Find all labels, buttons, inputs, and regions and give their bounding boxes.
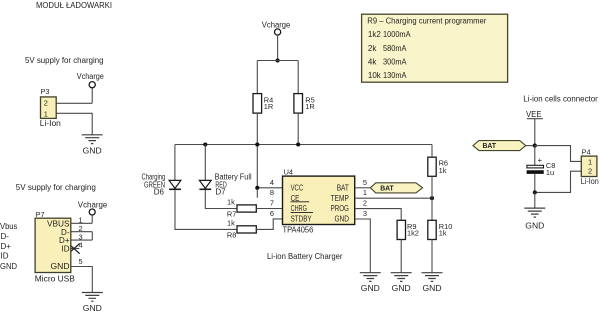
Vcharge open terminal (P3) — [89, 82, 95, 88]
junction VEE/BAT/C8/P4 — [533, 144, 537, 148]
diode D6 — [169, 180, 181, 189]
pin number 3 (P7) — [79, 232, 83, 241]
junction rail/R5 — [296, 142, 300, 146]
power symbol VEE — [526, 110, 543, 119]
svg-text:580mA: 580mA — [383, 44, 407, 53]
LED D7 labels — [215, 172, 252, 196]
caption Li-ion cells connector — [523, 94, 598, 103]
resistor R7 — [227, 198, 256, 219]
wire junction to C8 top — [534, 146, 536, 166]
svg-text:4: 4 — [79, 241, 83, 250]
wire R5 bottom to rail — [297, 113, 299, 144]
svg-text:TEMP: TEMP — [331, 194, 349, 203]
wire junction to P4 pin1 — [535, 146, 582, 162]
connector P7 Micro USB — [35, 210, 75, 283]
svg-text:5: 5 — [79, 257, 83, 266]
svg-text:Vcharge: Vcharge — [262, 20, 291, 29]
wire D7 cathode to R7 — [205, 190, 237, 208]
svg-text:4k: 4k — [368, 58, 377, 67]
pin number 1 (P7) — [79, 215, 83, 224]
svg-text:GND: GND — [83, 146, 102, 155]
svg-text:Li-Ion: Li-Ion — [40, 119, 61, 128]
svg-text:Li-ion Battery Charger: Li-ion Battery Charger — [267, 252, 343, 261]
sheet title MODUŁ ŁADOWARKI — [36, 1, 112, 10]
svg-text:STDBY: STDBY — [291, 214, 313, 223]
section label: 5V supply for charging (P7) — [16, 183, 96, 192]
svg-text:GND: GND — [525, 221, 544, 230]
pin number 2 (U4 PROG) — [363, 199, 367, 208]
svg-text:10k: 10k — [368, 71, 382, 80]
net label Vcharge (center) — [262, 20, 291, 29]
wire P3 pin1 to GND — [56, 113, 92, 134]
ground (R10) — [422, 273, 443, 294]
wire P3 pin2 to Vcharge — [56, 88, 92, 103]
wire R10 bottom to ground — [431, 240, 433, 273]
svg-text:CHRG: CHRG — [291, 204, 307, 213]
svg-text:4: 4 — [270, 178, 274, 187]
svg-text:2: 2 — [44, 98, 48, 107]
wire VEE down to junction — [534, 119, 536, 146]
svg-text:GND: GND — [51, 262, 70, 271]
svg-text:TPA4056: TPA4056 — [283, 225, 314, 234]
wire P4 pin2 to C8 bottom — [535, 171, 582, 192]
svg-text:1R: 1R — [305, 102, 314, 111]
wire rail to R6 top — [431, 145, 433, 158]
svg-text:BAT: BAT — [337, 184, 349, 193]
svg-text:+: + — [538, 156, 542, 165]
wire D6 cathode to R8 — [175, 190, 237, 229]
wire joining D- and D+ — [91, 232, 93, 240]
svg-text:ID: ID — [1, 252, 9, 261]
svg-text:1000mA: 1000mA — [383, 30, 411, 39]
caption Li-ion Battery Charger — [267, 252, 343, 261]
svg-text:5V supply for charging: 5V supply for charging — [16, 183, 96, 192]
svg-text:5: 5 — [363, 178, 367, 187]
svg-text:1: 1 — [44, 109, 48, 118]
svg-text:GND: GND — [83, 304, 102, 313]
resistor R9 — [397, 220, 419, 239]
resistor R6 — [428, 157, 448, 176]
junction at Vcharge split — [276, 58, 280, 62]
wire P7 pin5 GND — [71, 267, 92, 293]
svg-text:D+: D+ — [1, 242, 12, 251]
note box: R9 charging current table — [362, 14, 508, 82]
junction C8/P4/GND — [533, 190, 537, 194]
svg-text:Vcharge: Vcharge — [77, 72, 104, 81]
wire to R4 top — [256, 61, 258, 94]
capacitor C8 (polarized) — [527, 156, 555, 178]
svg-text:R7: R7 — [227, 209, 236, 218]
svg-text:P3: P3 — [41, 87, 50, 96]
svg-text:1k: 1k — [439, 166, 447, 175]
wire PROG pin2 to R9 — [355, 209, 402, 221]
junction TEMP/R6/R10 — [430, 196, 434, 200]
junction VCC/R4 line — [255, 186, 259, 190]
net label Vcharge (P3) — [77, 72, 104, 81]
port label GND — [0, 262, 17, 271]
pin 4 stub with no-connect cross — [68, 243, 79, 253]
svg-text:GND: GND — [335, 214, 350, 223]
wire Vcharge down to split — [277, 35, 279, 60]
svg-text:1k: 1k — [227, 219, 235, 228]
wire TEMP pin1 to divider — [355, 197, 432, 199]
svg-text:R9 – Charging current programm: R9 – Charging current programmer — [367, 16, 486, 25]
svg-text:U4: U4 — [284, 167, 293, 176]
wire VCC pin4 — [257, 187, 282, 189]
port label Vbus — [0, 222, 17, 231]
net flag BAT (cells) — [473, 141, 526, 151]
wire R9 bottom to ground — [400, 240, 402, 273]
svg-text:1R: 1R — [264, 102, 273, 111]
svg-text:GND: GND — [0, 262, 17, 271]
connector P3 — [40, 87, 61, 128]
wire BAT pin5 to flag — [355, 187, 371, 189]
svg-text:Li-ion cells connector: Li-ion cells connector — [523, 94, 598, 103]
svg-text:VEE: VEE — [526, 110, 542, 119]
svg-text:6: 6 — [270, 209, 274, 218]
net flag BAT (U4) — [370, 183, 422, 193]
pin number 3 (U4 GND) — [363, 209, 367, 218]
ground (P7) — [82, 293, 103, 314]
ground (P3) — [82, 135, 103, 156]
section label: 5V supply for charging (P3) — [25, 56, 104, 65]
svg-text:D-: D- — [1, 232, 10, 241]
wire junction down to ground — [534, 192, 536, 208]
ground (C8) — [524, 208, 545, 230]
wire R6 bottom to junction and to R10 — [431, 176, 433, 220]
diode D7 — [199, 180, 211, 189]
pin number 5 (P7) — [79, 257, 83, 266]
svg-text:1: 1 — [363, 188, 367, 197]
svg-text:VCC: VCC — [291, 184, 304, 193]
wire supply rail — [175, 144, 432, 146]
svg-text:1k2: 1k2 — [407, 229, 419, 238]
svg-text:GND: GND — [392, 284, 411, 293]
svg-text:1k2: 1k2 — [368, 30, 381, 39]
pin number 6 (U4 STDBY) — [270, 209, 274, 218]
resistor R4 — [253, 94, 273, 114]
pin number 1 (U4 TEMP) — [363, 188, 367, 197]
svg-text:Li-Ion: Li-Ion — [581, 177, 599, 186]
svg-text:R8: R8 — [227, 231, 236, 240]
pin number 4 (U4 VCC) — [270, 178, 274, 187]
svg-text:D6: D6 — [154, 188, 165, 197]
Vcharge open terminal (center) — [275, 29, 281, 35]
svg-text:BAT: BAT — [483, 141, 497, 150]
net label Vcharge (P7) — [78, 200, 108, 209]
junction rail/D7 — [203, 142, 207, 146]
pin number 2 (P7) — [79, 224, 83, 233]
wire to R5 top — [297, 61, 299, 94]
svg-text:ID: ID — [62, 244, 70, 253]
svg-text:PROG: PROG — [331, 204, 349, 213]
svg-text:1: 1 — [588, 157, 592, 166]
wire C8 bottom to junction — [534, 174, 536, 193]
svg-text:GND: GND — [423, 284, 442, 293]
wire P7 pin3 D+ — [71, 239, 92, 241]
wire R7 to CHRG pin7 — [256, 208, 282, 210]
pin number 4 (P7) — [79, 241, 83, 250]
svg-text:MODUŁ ŁADOWARKI: MODUŁ ŁADOWARKI — [36, 1, 112, 10]
LED D6 labels — [142, 172, 166, 196]
svg-text:Vbus: Vbus — [0, 222, 17, 231]
wire GND pin3 down — [355, 219, 371, 273]
pin number 5 (U4 BAT) — [363, 178, 367, 187]
ground (U4 GND pin) — [360, 273, 381, 294]
resistor R10 — [428, 220, 453, 239]
svg-text:P4: P4 — [582, 148, 591, 157]
resistor R5 — [294, 94, 315, 114]
port label D+ — [1, 242, 12, 251]
wire rail to D6 anode — [174, 145, 176, 181]
pin number 8 (U4 CE) — [270, 188, 274, 197]
svg-text:1k: 1k — [227, 198, 235, 207]
pin number 7 (U4 CHRG) — [270, 199, 274, 208]
junction rail/R4 — [255, 142, 259, 146]
wire rail to D7 anode — [204, 145, 206, 181]
svg-text:2k: 2k — [368, 44, 377, 53]
op IC U4 TPA4056 — [283, 167, 355, 234]
port label ID — [1, 252, 9, 261]
svg-text:2: 2 — [363, 199, 367, 208]
svg-text:5V supply for charging: 5V supply for charging — [25, 56, 104, 65]
wire P7 pin2 D- — [71, 231, 92, 233]
svg-text:Micro USB: Micro USB — [35, 274, 75, 283]
wire flag to junction — [526, 145, 535, 147]
svg-text:Vcharge: Vcharge — [78, 200, 108, 209]
resistor R8 — [227, 219, 256, 240]
svg-text:300mA: 300mA — [383, 58, 407, 67]
wire P7 pin1 VBUS to Vcharge — [71, 215, 92, 223]
ground (R9) — [391, 273, 412, 294]
svg-text:GND: GND — [361, 284, 380, 293]
Vcharge open terminal (P7) — [89, 209, 95, 215]
svg-text:3: 3 — [363, 209, 367, 218]
svg-text:2: 2 — [588, 167, 592, 176]
svg-text:7: 7 — [270, 199, 274, 208]
svg-text:1k: 1k — [439, 229, 447, 238]
wire split horizontal — [257, 60, 298, 62]
wire R4 bottom through rail to CE row — [256, 113, 258, 198]
port label D- — [1, 232, 10, 241]
svg-text:130mA: 130mA — [383, 71, 407, 80]
connector P4 — [581, 148, 599, 187]
wire R8 to STDBY pin6 — [256, 219, 282, 230]
svg-text:D7: D7 — [215, 188, 226, 197]
svg-text:8: 8 — [270, 188, 274, 197]
svg-text:BAT: BAT — [380, 183, 394, 192]
svg-text:1u: 1u — [546, 168, 554, 177]
